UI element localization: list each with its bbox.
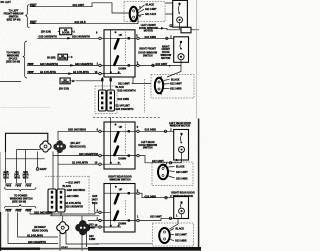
svg-text:F933: F933 xyxy=(26,184,32,187)
svg-text:NO LEFT: NO LEFT xyxy=(1,1,12,4)
svg-text:G1 14YL/WTH: G1 14YL/WTH xyxy=(27,235,43,238)
svg-text:G12 14BR: G12 14BR xyxy=(145,36,157,39)
svg-text:G20 14GR/WTH: G20 14GR/WTH xyxy=(28,241,46,244)
svg-text:G1 14YL/WTH: G1 14YL/WTH xyxy=(72,162,88,165)
svg-text:G1 14YL/WTH: G1 14YL/WTH xyxy=(40,71,56,74)
svg-text:(SH 126): (SH 126) xyxy=(41,31,51,34)
svg-text:UP: UP xyxy=(119,126,123,129)
svg-text:BLACK: BLACK xyxy=(171,78,180,81)
svg-text:REAR DOOR): REAR DOOR) xyxy=(70,145,86,148)
svg-text:BKH: BKH xyxy=(3,177,9,180)
svg-text:1: 1 xyxy=(169,66,170,68)
svg-text:(SH 133): (SH 133) xyxy=(59,88,69,91)
svg-text:G13 14BR: G13 14BR xyxy=(145,195,157,198)
svg-text:DOWN: DOWN xyxy=(118,223,126,226)
svg-text:G12 14BR: G12 14BR xyxy=(67,195,79,198)
svg-text:G13 14BR: G13 14BR xyxy=(175,239,187,242)
svg-text:DOOR: DOOR xyxy=(62,32,70,35)
svg-text:G13 14WT: G13 14WT xyxy=(175,234,187,237)
svg-text:G12 14BR: G12 14BR xyxy=(118,98,130,101)
svg-text:G20 14GR/WTH: G20 14GR/WTH xyxy=(75,63,93,66)
svg-text:G11 14WT: G11 14WT xyxy=(73,4,85,7)
svg-text:F900: F900 xyxy=(30,4,36,7)
svg-text:G12 14BR: G12 14BR xyxy=(170,87,182,90)
svg-text:DOWN: DOWN xyxy=(118,67,126,70)
svg-text:SH (05): SH (05) xyxy=(47,56,56,59)
svg-text:G11 14WT: G11 14WT xyxy=(145,8,157,11)
svg-text:SWITCH: SWITCH xyxy=(143,147,153,150)
svg-text:G13 14WT: G13 14WT xyxy=(176,171,188,174)
svg-text:UP: UP xyxy=(119,188,123,191)
svg-text:BLACK: BLACK xyxy=(63,185,72,188)
svg-text:UP: UP xyxy=(119,34,123,37)
svg-text:(SEE SH 90): (SEE SH 90) xyxy=(12,201,26,204)
svg-text:F933: F933 xyxy=(26,210,32,213)
svg-text:G11 14LB: G11 14LB xyxy=(75,21,86,24)
svg-text:MOTOR: MOTOR xyxy=(144,30,153,33)
svg-text:G12 14WT: G12 14WT xyxy=(170,83,182,86)
svg-text:WINDOW MOTOR: WINDOW MOTOR xyxy=(170,124,191,127)
svg-text:F933: F933 xyxy=(6,184,12,187)
svg-text:G20 14GR/WTH: G20 14GR/WTH xyxy=(40,63,58,66)
svg-text:G13 14BR: G13 14BR xyxy=(176,177,188,180)
svg-text:G1B 14GY/BKH: G1B 14GY/BKH xyxy=(67,189,85,192)
svg-text:G20 14GR/WTH: G20 14GR/WTH xyxy=(79,153,97,156)
svg-text:G13 14WT: G13 14WT xyxy=(150,216,162,219)
svg-text:F933: F933 xyxy=(16,210,22,213)
svg-text:SWITCH: SWITCH xyxy=(143,55,153,58)
svg-text:(SEE SP 90): (SEE SP 90) xyxy=(7,18,21,21)
svg-text:(SEE SH 90): (SEE SH 90) xyxy=(6,61,20,64)
svg-text:G12 14WT: G12 14WT xyxy=(156,63,168,66)
svg-text:BLACK: BLACK xyxy=(146,3,155,6)
svg-text:DOOR: DOOR xyxy=(61,81,69,84)
svg-text:RIGHT FRONT: RIGHT FRONT xyxy=(139,48,156,51)
svg-text:G1B 14GY/BKH: G1B 14GY/BKH xyxy=(68,129,86,132)
svg-text:G1 14YL/WT: G1 14YL/WT xyxy=(116,104,131,107)
svg-text:G18 14GR/WTH: G18 14GR/WTH xyxy=(72,36,90,39)
svg-text:DOWN: DOWN xyxy=(118,158,126,161)
svg-text:BLACK: BLACK xyxy=(176,227,185,230)
svg-text:G1B 14GY/BKH: G1B 14GY/BKH xyxy=(34,211,52,214)
svg-text:WINDOW SWITCH: WINDOW SWITCH xyxy=(110,179,131,182)
svg-text:14BR: 14BR xyxy=(89,238,95,241)
svg-text:G13 14BR: G13 14BR xyxy=(145,128,157,131)
svg-text:BLACK: BLACK xyxy=(176,166,185,169)
svg-text:G20 14GR/WTH: G20 14GR/WTH xyxy=(116,108,134,111)
svg-text:F933: F933 xyxy=(16,184,22,187)
svg-text:MOTOR: MOTOR xyxy=(161,57,170,60)
svg-text:WTH: WTH xyxy=(23,177,29,180)
svg-text:G1B 14GR/WTH: G1B 14GR/WTH xyxy=(39,36,58,39)
svg-text:G11 14LB: G11 14LB xyxy=(145,13,156,16)
svg-text:GRAY: GRAY xyxy=(40,168,47,171)
svg-text:F900: F900 xyxy=(30,21,36,24)
svg-text:G1 14YL/WTH: G1 14YL/WTH xyxy=(73,71,89,74)
svg-text:G20 14GR/WTH: G20 14GR/WTH xyxy=(65,205,83,208)
svg-text:G1B 14GY/WTH: G1B 14GY/WTH xyxy=(118,89,136,92)
svg-text:DOOR: DOOR xyxy=(59,57,67,60)
svg-text:F933: F933 xyxy=(6,210,12,213)
svg-text:WTH: WTH xyxy=(14,177,20,180)
svg-text:REAR DOOR): REAR DOOR) xyxy=(32,229,48,232)
svg-text:G13 14WT: G13 14WT xyxy=(152,160,164,163)
